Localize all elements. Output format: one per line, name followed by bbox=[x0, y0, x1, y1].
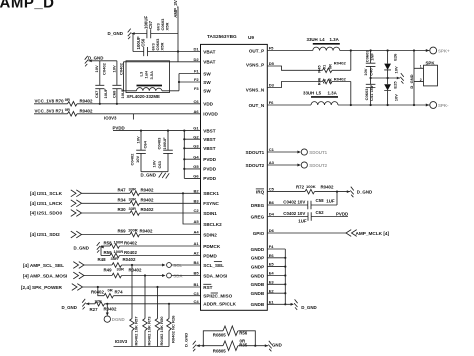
svg-text:D4: D4 bbox=[269, 212, 275, 217]
svg-text:100UF: 100UF bbox=[162, 137, 167, 150]
svg-text:L5: L5 bbox=[316, 90, 322, 95]
svg-text:10V: 10V bbox=[111, 65, 116, 73]
svg-text:R0402: R0402 bbox=[80, 98, 93, 103]
pin F5 OUT_P bbox=[249, 46, 274, 54]
pin D1 VBAT bbox=[194, 47, 216, 55]
svg-text:F1: F1 bbox=[194, 69, 199, 74]
svg-text:E3: E3 bbox=[269, 279, 275, 284]
svg-text:33R: 33R bbox=[117, 267, 125, 272]
pin A1 PDMCK bbox=[194, 241, 221, 249]
wire C67/C68 top bbox=[89, 60, 117, 62]
svg-text:SDOUT2: SDOUT2 bbox=[309, 163, 327, 168]
svg-text:10V: 10V bbox=[135, 155, 140, 163]
net AMP_SDA_MOSI with resistor R49 bbox=[23, 267, 165, 279]
svg-text:10V: 10V bbox=[151, 160, 156, 168]
pin G3 VBST bbox=[193, 143, 215, 151]
svg-text:0R: 0R bbox=[65, 97, 70, 102]
net I2S1_LRCK with resistor R34 bbox=[30, 196, 201, 206]
net I2S1_SDO0 with resistor R30 bbox=[30, 206, 201, 216]
svg-text:AMP_MCLK [4]: AMP_MCLK [4] bbox=[356, 231, 390, 236]
svg-text:1.3A: 1.3A bbox=[328, 90, 338, 95]
svg-text:RST: RST bbox=[203, 285, 212, 290]
svg-text:C41 1NF: C41 1NF bbox=[369, 84, 374, 101]
svg-text:D1: D1 bbox=[194, 47, 200, 52]
connector SPK+ bbox=[426, 47, 450, 54]
net stub SCL bbox=[162, 263, 200, 268]
svg-text:VBST: VBST bbox=[203, 146, 215, 151]
svg-text:[2,4] SPK_POWER: [2,4] SPK_POWER bbox=[21, 285, 63, 290]
pin E3 GNDB bbox=[251, 279, 275, 287]
pin F3 SW bbox=[194, 86, 211, 94]
svg-text:DREG: DREG bbox=[251, 203, 265, 208]
svg-text:R71: R71 bbox=[56, 108, 65, 113]
svg-text:R47: R47 bbox=[118, 188, 127, 193]
svg-text:E5: E5 bbox=[269, 262, 275, 267]
wire GNDD F4 bbox=[267, 248, 285, 250]
svg-text:A2: A2 bbox=[194, 251, 200, 256]
wire SW F2 bbox=[179, 81, 201, 83]
svg-text:F4: F4 bbox=[269, 244, 274, 249]
pull-up resistor R57 bbox=[130, 265, 139, 347]
pin D4 GREG bbox=[251, 212, 275, 220]
pin B2 SBCK1 bbox=[194, 188, 220, 196]
pin E2 GNDB bbox=[251, 288, 275, 296]
speaker rail bbox=[413, 51, 415, 106]
wire VSNS_N with resistor R46 bbox=[267, 76, 352, 106]
svg-text:33R: 33R bbox=[129, 206, 137, 211]
svg-text:E25: E25 bbox=[393, 81, 398, 89]
svg-text:OUT_N: OUT_N bbox=[249, 103, 265, 108]
svg-text:R0402: R0402 bbox=[104, 307, 117, 312]
inductor L4 bbox=[307, 37, 340, 50]
svg-text:C64: C64 bbox=[142, 140, 147, 148]
pin A2 PDMD bbox=[194, 251, 218, 259]
svg-text:A5: A5 bbox=[194, 219, 200, 224]
svg-text:SBCLK2: SBCLK2 bbox=[203, 222, 222, 227]
pin G2 VBST bbox=[193, 134, 215, 142]
pin C3 SPI/I2C_MISO bbox=[194, 291, 233, 299]
svg-text:[4] I2S1_LRCK: [4] I2S1_LRCK bbox=[30, 201, 63, 206]
svg-text:1UF: 1UF bbox=[298, 219, 307, 224]
wire PVDD G6 bbox=[184, 177, 200, 179]
resistor R56 bbox=[203, 326, 255, 346]
svg-text:X5R: X5R bbox=[159, 43, 164, 51]
svg-text:B4: B4 bbox=[194, 260, 200, 265]
svg-text:DGND: DGND bbox=[112, 317, 125, 322]
svg-text:10V: 10V bbox=[94, 65, 99, 73]
wire IRQ with resistor R72 bbox=[267, 184, 350, 194]
svg-text:AMP_D: AMP_D bbox=[0, 0, 55, 11]
pin F6 OUT_N bbox=[249, 100, 275, 108]
svg-text:1uH: 1uH bbox=[143, 71, 148, 79]
svg-text:SPII2C_MISO: SPII2C_MISO bbox=[203, 294, 232, 299]
svg-text:VBST: VBST bbox=[203, 128, 215, 133]
wire GNDP E6 bbox=[267, 257, 285, 259]
svg-text:10UF: 10UF bbox=[120, 88, 125, 98]
svg-text:C5: C5 bbox=[269, 187, 275, 192]
svg-text:D_GND: D_GND bbox=[357, 190, 372, 195]
wire VSNS_P with resistor R45 bbox=[267, 49, 352, 72]
svg-text:C58: C58 bbox=[316, 198, 325, 203]
svg-text:10V: 10V bbox=[363, 68, 368, 76]
svg-text:D_GND: D_GND bbox=[409, 74, 414, 88]
net I2S1_SCLK with resistor R47 bbox=[30, 186, 201, 196]
wire PVDD G4 bbox=[184, 158, 200, 160]
svg-text:R0402: R0402 bbox=[129, 268, 142, 273]
svg-text:L4: L4 bbox=[320, 37, 326, 42]
svg-text:SDOUT1: SDOUT1 bbox=[309, 150, 327, 155]
ground D_GND (PVDD caps) bbox=[141, 172, 170, 178]
svg-text:F2: F2 bbox=[194, 77, 199, 82]
svg-text:A6: A6 bbox=[194, 109, 200, 114]
svg-text:E6: E6 bbox=[269, 253, 275, 258]
wire SW F1 bbox=[179, 73, 201, 75]
svg-text:C0402: C0402 bbox=[119, 62, 124, 75]
wire PDM gnd bus bbox=[100, 246, 102, 256]
svg-text:GNDD: GNDD bbox=[251, 273, 265, 278]
svg-text:U9: U9 bbox=[248, 35, 254, 40]
net stub SDOUT1 bbox=[267, 149, 327, 155]
svg-text:GNDD: GNDD bbox=[251, 247, 265, 252]
svg-text:[4] AMP_SCL_SEL: [4] AMP_SCL_SEL bbox=[23, 263, 64, 268]
svg-text:C57: C57 bbox=[148, 20, 153, 29]
pull-up resistor R73 bbox=[143, 276, 152, 347]
svg-text:10V: 10V bbox=[135, 136, 140, 144]
svg-text:0R: 0R bbox=[65, 107, 70, 112]
ground D_GND (speaker filter) bbox=[397, 73, 414, 89]
pin F1 SW bbox=[194, 69, 211, 77]
svg-text:D_GND: D_GND bbox=[88, 56, 103, 61]
svg-text:D2: D2 bbox=[194, 57, 200, 62]
svg-text:GNDB: GNDB bbox=[251, 291, 265, 296]
svg-text:A1: A1 bbox=[194, 241, 200, 246]
svg-text:100R: 100R bbox=[114, 249, 124, 254]
pin F2 SW bbox=[194, 77, 211, 85]
svg-text:R0402 10K R50: R0402 10K R50 bbox=[159, 316, 164, 346]
svg-text:33R: 33R bbox=[129, 186, 137, 191]
svg-text:G1: G1 bbox=[193, 126, 199, 131]
net VCC_1V8 with resistor R70 bbox=[34, 97, 201, 106]
svg-text:GNDB: GNDB bbox=[251, 282, 265, 287]
svg-text:C67: C67 bbox=[94, 90, 99, 98]
svg-text:C3: C3 bbox=[194, 291, 200, 296]
VBST/PVDD pin bus bbox=[183, 131, 185, 179]
svg-text:XFL4020-332ME: XFL4020-332ME bbox=[127, 94, 161, 99]
svg-text:E2: E2 bbox=[269, 288, 275, 293]
svg-text:SDOUT1: SDOUT1 bbox=[246, 150, 265, 155]
capacitor C67 bbox=[94, 61, 108, 104]
svg-text:R56: R56 bbox=[239, 331, 248, 336]
pin A5 SBCLK2 bbox=[194, 219, 223, 227]
net stub SDA bbox=[162, 273, 200, 278]
svg-text:R0402 10K R73: R0402 10K R73 bbox=[146, 316, 151, 346]
pin B5 SDA_MOSI bbox=[194, 271, 228, 279]
svg-text:TAS2563YBG: TAS2563YBG bbox=[207, 34, 237, 39]
svg-text:R0402: R0402 bbox=[334, 61, 347, 66]
pin F4 GNDD bbox=[251, 244, 275, 252]
pin G5 PVDD bbox=[193, 164, 216, 172]
wire OUT_N bbox=[267, 104, 430, 106]
capacitor C57 bbox=[143, 16, 169, 39]
svg-text:X5R: X5R bbox=[164, 23, 169, 31]
svg-text:R34: R34 bbox=[118, 198, 127, 203]
capacitor C68 bbox=[111, 61, 125, 104]
svg-text:G6: G6 bbox=[193, 174, 199, 179]
svg-text:VCC_3V3: VCC_3V3 bbox=[35, 108, 55, 113]
wire SBCLK2 bus bbox=[183, 193, 201, 224]
capacitor C64 bbox=[129, 130, 147, 172]
pin D3 VSNS_N bbox=[246, 83, 275, 93]
net SPK_POWER bbox=[21, 284, 201, 291]
wire VBST G3 bbox=[184, 147, 200, 149]
svg-text:R0402: R0402 bbox=[124, 240, 137, 245]
svg-text:1UF: 1UF bbox=[326, 199, 335, 204]
svg-text:R0402: R0402 bbox=[140, 229, 153, 234]
net VCC_3V3 with resistor R71 bbox=[34, 107, 201, 116]
svg-text:F6: F6 bbox=[269, 100, 274, 105]
svg-text:C4: C4 bbox=[194, 299, 200, 304]
svg-text:100K: 100K bbox=[306, 184, 316, 189]
wire PVDD cap ground rail bbox=[141, 171, 168, 173]
svg-text:[4] AMP_SDA_MOSI: [4] AMP_SDA_MOSI bbox=[23, 273, 67, 278]
pin D5 VSNS_P bbox=[246, 61, 275, 67]
svg-text:R69: R69 bbox=[118, 229, 127, 234]
svg-text:G4: G4 bbox=[193, 154, 199, 159]
svg-text:PVDD: PVDD bbox=[203, 167, 216, 172]
svg-text:[4] I2S1_SDO0: [4] I2S1_SDO0 bbox=[30, 211, 62, 216]
pin B6 DREG bbox=[251, 200, 275, 208]
pull-up resistor R26 bbox=[167, 304, 176, 347]
svg-text:R0402 NC R26: R0402 NC R26 bbox=[170, 315, 175, 343]
svg-text:VBAT: VBAT bbox=[203, 49, 215, 54]
svg-text:C56: C56 bbox=[140, 38, 145, 47]
ground GND (bottom tie right) bbox=[265, 341, 282, 352]
TVS diode D26 bbox=[384, 49, 398, 78]
svg-text:PVDD: PVDD bbox=[203, 157, 216, 162]
svg-text:B1: B1 bbox=[194, 282, 200, 287]
svg-text:A3: A3 bbox=[269, 160, 275, 165]
svg-text:GNDP: GNDP bbox=[251, 256, 264, 261]
svg-text:SBCK1: SBCK1 bbox=[203, 191, 219, 196]
svg-text:[4] I2S1_SDI2: [4] I2S1_SDI2 bbox=[30, 232, 60, 237]
svg-text:1: 1 bbox=[420, 65, 422, 69]
svg-text:C40: C40 bbox=[368, 68, 373, 76]
pin D2 VBAT bbox=[194, 57, 216, 65]
svg-text:B2: B2 bbox=[194, 188, 200, 193]
svg-text:SW: SW bbox=[203, 80, 211, 85]
svg-text:PDMCK: PDMCK bbox=[203, 244, 221, 249]
net stub DGND bbox=[104, 304, 125, 323]
svg-text:1.3A: 1.3A bbox=[330, 37, 340, 42]
svg-text:R0805: R0805 bbox=[213, 349, 226, 354]
svg-text:SW: SW bbox=[203, 89, 211, 94]
svg-text:VCC_1V8: VCC_1V8 bbox=[35, 98, 55, 103]
pin A3 SDOUT2 bbox=[246, 160, 275, 168]
resistor R74 bbox=[91, 287, 201, 298]
svg-text:E26: E26 bbox=[393, 53, 398, 61]
resistor R27 bbox=[86, 298, 201, 312]
ground D_GND (PDM rows) bbox=[74, 242, 104, 253]
svg-text:SPK+: SPK+ bbox=[438, 48, 450, 53]
svg-text:GNDB: GNDB bbox=[251, 302, 265, 307]
svg-text:R0805: R0805 bbox=[213, 332, 226, 337]
ground D_GND (IC gnd pins) bbox=[291, 299, 317, 310]
ground D_GND (C67/C68) bbox=[85, 56, 104, 67]
pin G1 VBST bbox=[193, 126, 215, 134]
wire VBST G2 bbox=[184, 138, 200, 140]
net stub SDOUT2 bbox=[267, 162, 327, 168]
svg-text:GND: GND bbox=[272, 342, 282, 347]
svg-text:R30: R30 bbox=[118, 207, 127, 212]
svg-text:10UF: 10UF bbox=[103, 88, 108, 98]
wire GNDB E1 bbox=[267, 303, 293, 305]
svg-text:PVDD: PVDD bbox=[113, 125, 125, 130]
svg-text:C62: C62 bbox=[316, 210, 325, 215]
svg-text:R27: R27 bbox=[90, 307, 99, 312]
svg-text:10V: 10V bbox=[393, 66, 398, 74]
pin G6 PVDD bbox=[193, 174, 216, 182]
svg-text:D_GND: D_GND bbox=[74, 246, 89, 251]
svg-text:C6: C6 bbox=[194, 99, 200, 104]
svg-text:R0402: R0402 bbox=[141, 188, 154, 193]
svg-text:C1: C1 bbox=[269, 147, 275, 152]
svg-text:D_GND: D_GND bbox=[183, 333, 188, 347]
svg-text:10V: 10V bbox=[393, 94, 398, 102]
svg-text:PVDD: PVDD bbox=[336, 212, 348, 217]
svg-text:SW: SW bbox=[203, 71, 211, 76]
pin B1 RST bbox=[194, 282, 213, 290]
pull-up resistor R50 bbox=[155, 287, 164, 347]
wire VBAT D1 feed bbox=[178, 51, 201, 53]
TVS diode D25 bbox=[384, 78, 398, 106]
svg-text:E4: E4 bbox=[269, 271, 275, 276]
net label IO3V3 bbox=[104, 114, 133, 121]
svg-text:R0402: R0402 bbox=[141, 198, 154, 203]
capacitor C56 bbox=[136, 36, 165, 56]
svg-text:B3: B3 bbox=[194, 198, 200, 203]
svg-text:E1: E1 bbox=[269, 299, 275, 304]
svg-text:D3: D3 bbox=[269, 83, 275, 88]
svg-text:33UH: 33UH bbox=[303, 90, 314, 95]
svg-text:IOVDD: IOVDD bbox=[203, 112, 218, 117]
svg-text:GREG: GREG bbox=[251, 214, 265, 219]
svg-text:OUT_P: OUT_P bbox=[249, 48, 264, 53]
connector SPK- bbox=[426, 102, 449, 109]
svg-text:R0402 10K R57: R0402 10K R57 bbox=[133, 316, 138, 346]
svg-text:SDA_MOSI: SDA_MOSI bbox=[203, 273, 227, 278]
svg-text:D_GND: D_GND bbox=[301, 305, 316, 310]
svg-text:ADDR_SPICLK: ADDR_SPICLK bbox=[203, 302, 236, 307]
pin A4 SDIN2 bbox=[194, 230, 218, 238]
svg-text:D_GND: D_GND bbox=[108, 31, 123, 36]
ground D_GND (R27) bbox=[62, 299, 90, 310]
svg-text:PDMD: PDMD bbox=[203, 253, 217, 258]
svg-text:F5: F5 bbox=[269, 46, 274, 51]
pin A6 IOVDD bbox=[194, 109, 219, 117]
svg-text:C63: C63 bbox=[157, 160, 162, 168]
svg-text:SPK-: SPK- bbox=[438, 103, 449, 108]
resistor R59 bbox=[101, 249, 201, 258]
svg-text:VDD: VDD bbox=[203, 102, 213, 107]
svg-text:R35: R35 bbox=[239, 342, 248, 347]
svg-text:GPIO: GPIO bbox=[253, 231, 265, 236]
svg-text:SCL_SEL: SCL_SEL bbox=[203, 263, 224, 268]
capacitor C58 (DREG) bbox=[267, 192, 337, 210]
pin C1 SDOUT1 bbox=[246, 147, 275, 155]
svg-text:IO3V3: IO3V3 bbox=[104, 115, 117, 120]
svg-text:D5: D5 bbox=[269, 61, 275, 66]
pin G4 PVDD bbox=[193, 154, 216, 162]
wire GNDB E3 bbox=[267, 283, 285, 285]
svg-text:D_GND: D_GND bbox=[141, 173, 156, 178]
capacitor C40 bbox=[363, 49, 376, 78]
svg-text:SDIN2: SDIN2 bbox=[203, 232, 217, 237]
pin C6 VDD bbox=[194, 99, 214, 107]
SW bus bbox=[178, 74, 180, 91]
svg-text:F3: F3 bbox=[194, 86, 199, 91]
svg-text:R0402: R0402 bbox=[334, 76, 347, 81]
pin E5 GNDP bbox=[251, 262, 274, 270]
svg-text:C68: C68 bbox=[111, 90, 116, 98]
svg-text:R0402: R0402 bbox=[80, 108, 93, 113]
wire GNDD E4 bbox=[267, 275, 285, 277]
svg-text:R0402: R0402 bbox=[91, 290, 104, 295]
svg-text:VBST: VBST bbox=[203, 137, 215, 142]
capacitor C41 bbox=[364, 78, 375, 106]
pin B4 SCL_SEL bbox=[194, 260, 225, 268]
wire top cap row 1 bbox=[132, 33, 179, 35]
capacitor C62 (GREG) bbox=[267, 210, 348, 224]
wire GPIO to AMP_MCLK bbox=[267, 230, 389, 237]
inductor module box L3 bbox=[126, 61, 170, 93]
wire top cap row 2 bbox=[133, 34, 178, 52]
svg-text:33UH: 33UH bbox=[307, 37, 318, 42]
svg-text:R74: R74 bbox=[115, 290, 124, 295]
wire OUT_P bbox=[267, 50, 429, 52]
svg-text:3.5A: 3.5A bbox=[149, 71, 154, 80]
wire GNDP E5 bbox=[267, 266, 285, 268]
svg-text:PVDD: PVDD bbox=[203, 176, 216, 181]
svg-text:100R: 100R bbox=[128, 228, 138, 233]
pin E1 GNDB bbox=[251, 299, 275, 307]
pin E4 GNDD bbox=[251, 271, 275, 279]
svg-text:IRQ: IRQ bbox=[256, 189, 265, 194]
power rail AMP_3V3 bbox=[173, 0, 179, 62]
svg-text:33R: 33R bbox=[111, 256, 119, 261]
pin B3 FSYNC bbox=[194, 198, 220, 206]
svg-text:AMP_3V3: AMP_3V3 bbox=[173, 0, 178, 18]
wire PVDD G5 bbox=[184, 168, 200, 170]
svg-text:R0402: R0402 bbox=[124, 250, 137, 255]
net AMP_SCL_SEL with resistor R48 bbox=[23, 256, 165, 268]
svg-text:G3: G3 bbox=[193, 143, 199, 148]
svg-text:C0402: C0402 bbox=[129, 153, 134, 166]
svg-text:[4] I2S1_SCLK: [4] I2S1_SCLK bbox=[30, 191, 63, 196]
svg-text:B5: B5 bbox=[194, 271, 200, 276]
inductor L5 bbox=[303, 90, 338, 105]
net I2S1_SDI2 with resistor R69 bbox=[30, 228, 201, 238]
svg-text:33R: 33R bbox=[129, 196, 137, 201]
svg-text:G2: G2 bbox=[193, 134, 199, 139]
svg-text:R70: R70 bbox=[56, 98, 65, 103]
svg-text:0R: 0R bbox=[108, 287, 113, 292]
svg-text:R0402: R0402 bbox=[123, 257, 136, 262]
pin C5 IRQ bbox=[256, 187, 275, 195]
ground D_GND (IRQ pulldown) bbox=[347, 187, 372, 198]
svg-text:D_GND: D_GND bbox=[62, 305, 77, 310]
wire L3 to SW bus bbox=[162, 90, 179, 92]
svg-text:R0402: R0402 bbox=[321, 185, 334, 190]
